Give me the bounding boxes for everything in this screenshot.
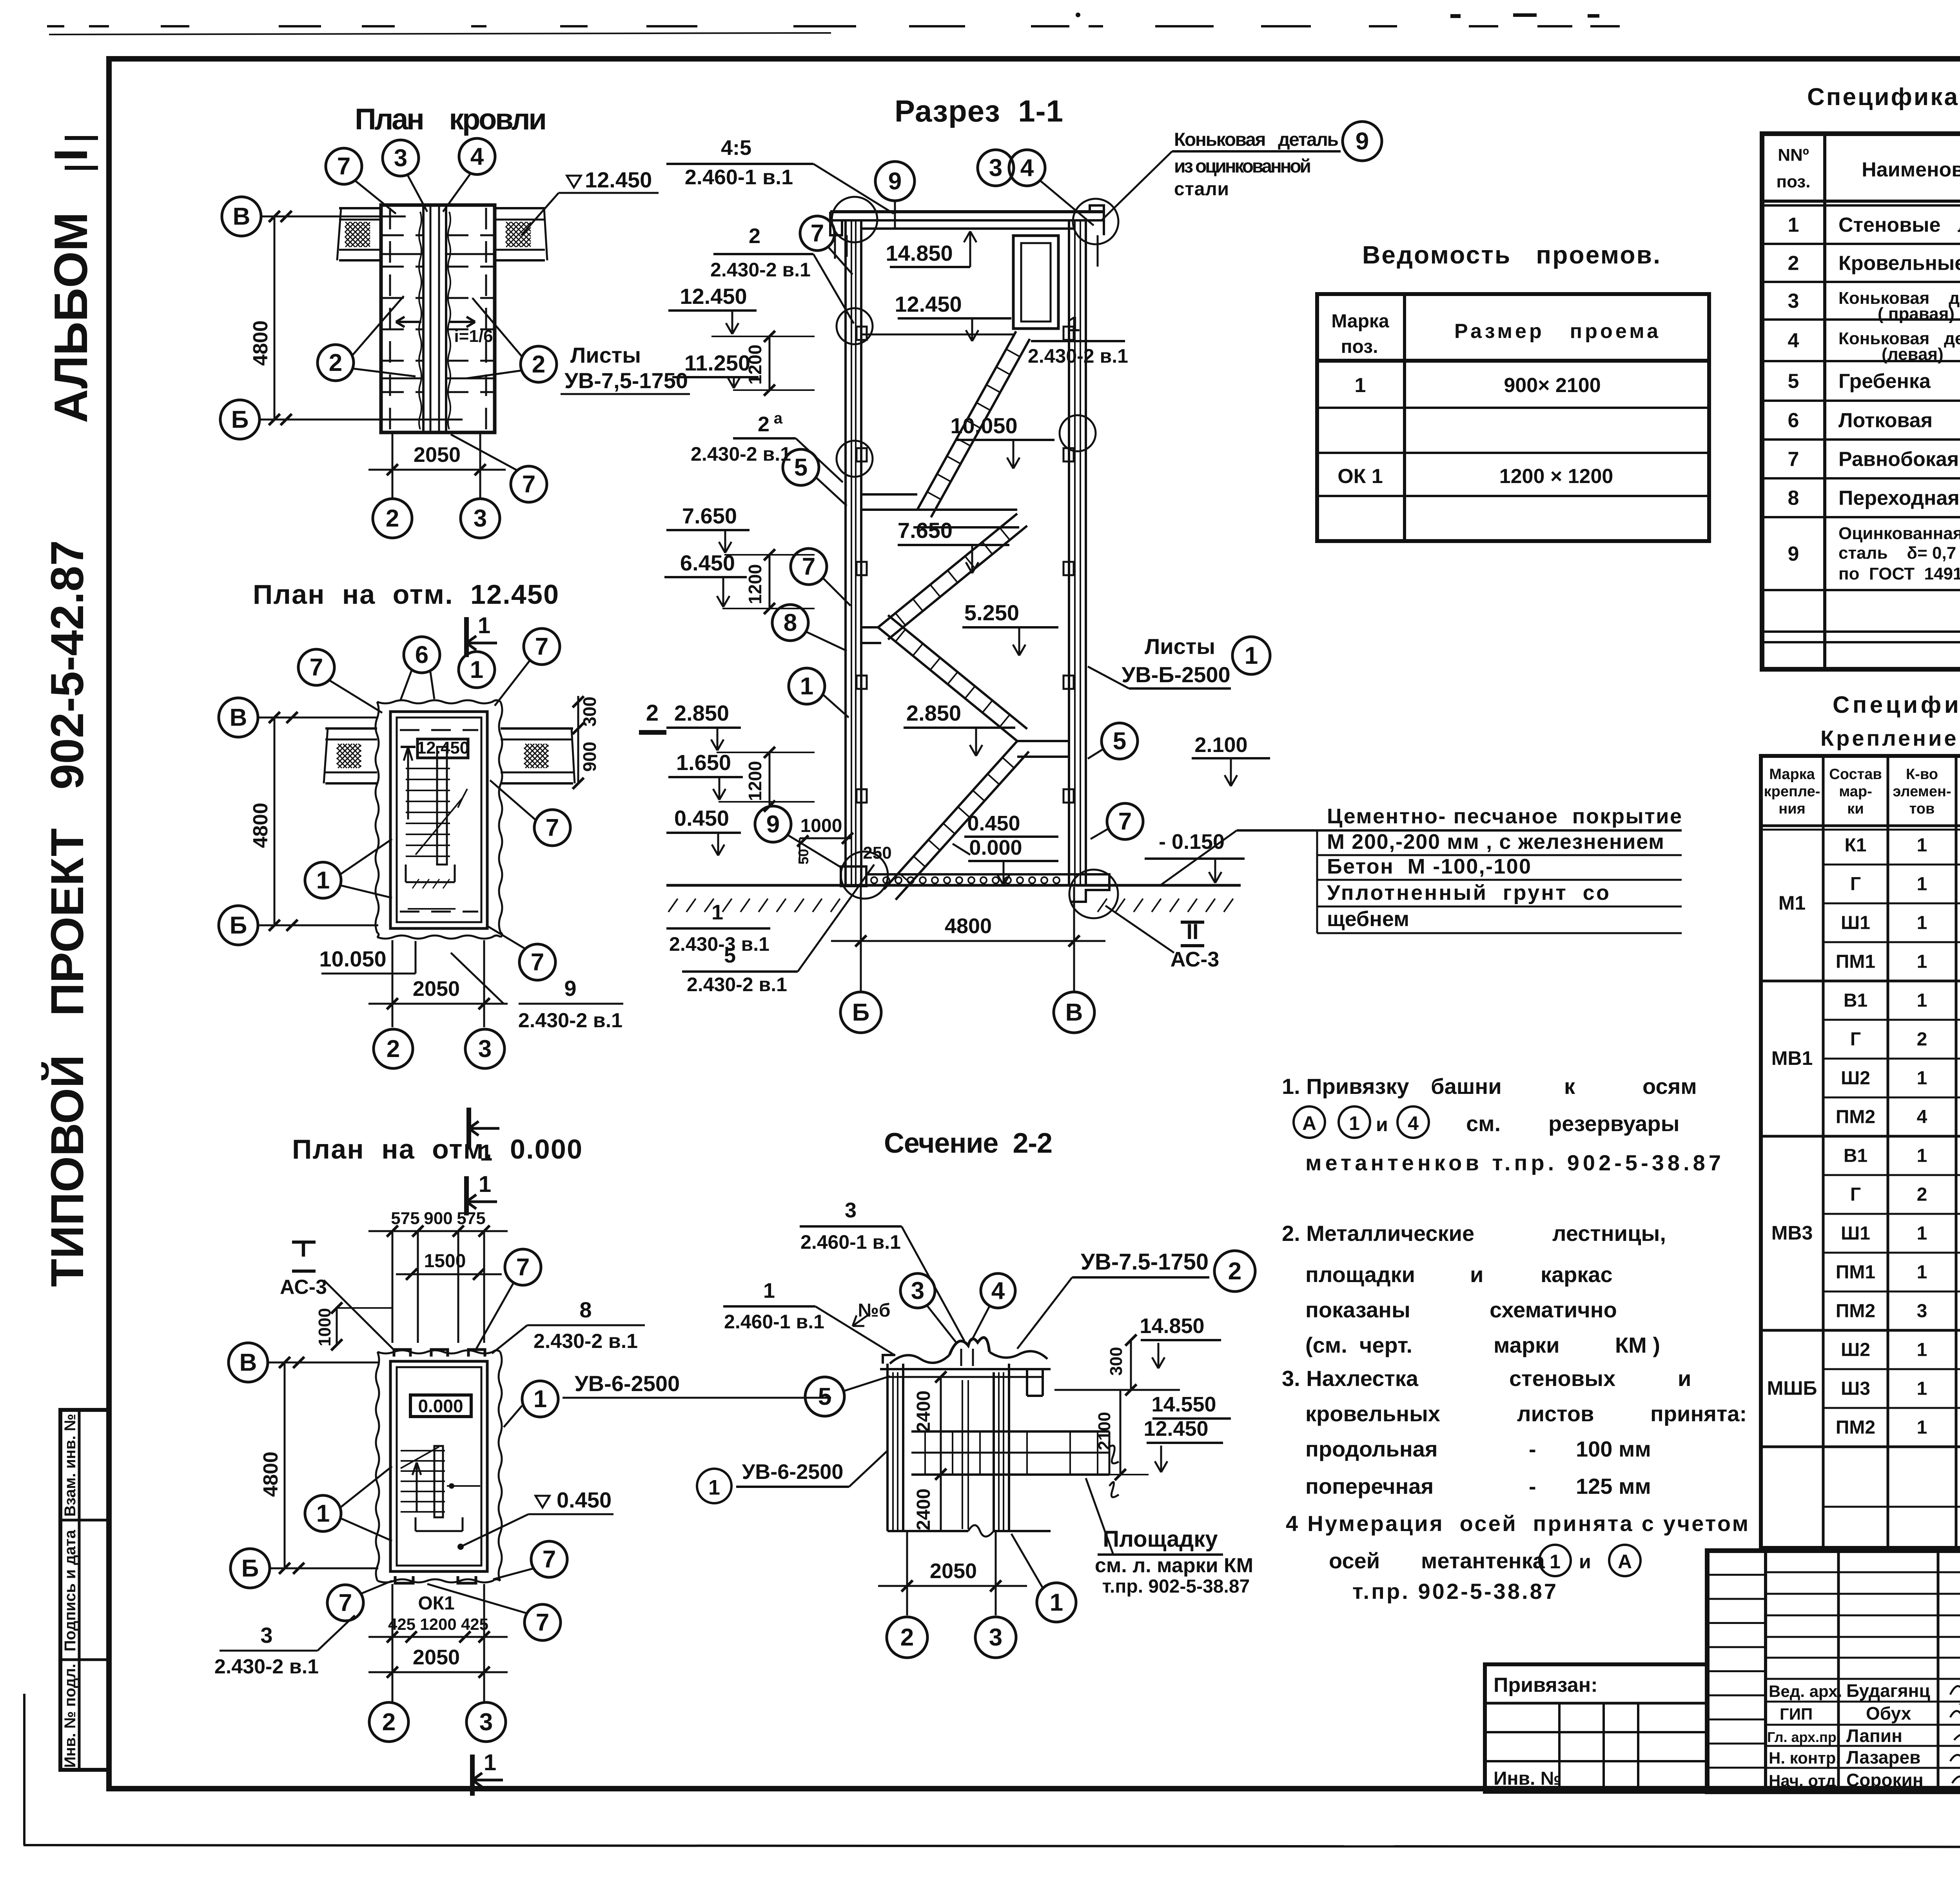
sidebar table (Инв.№ подл / Подпись и дата / Взам. инв.№) [60, 1410, 109, 1770]
section 2-2 dim 300 [1130, 1340, 1132, 1390]
svg-text:1: 1 [763, 1279, 775, 1302]
svg-text:3: 3 [989, 1624, 1002, 1651]
svg-text:2.430-2 в.1: 2.430-2 в.1 [691, 443, 791, 465]
svg-text:см. л. марки КМ: см. л. марки КМ [1095, 1554, 1253, 1577]
section 2-2 right wall [993, 1372, 995, 1531]
svg-text:2050: 2050 [413, 1646, 460, 1669]
svg-text:7: 7 [339, 1589, 352, 1617]
svg-text:2.430-2 в.1: 2.430-2 в.1 [687, 974, 787, 995]
plan 0.000 top clips [394, 1350, 410, 1357]
section 2-2 dim 2400 lower [940, 1474, 942, 1531]
dimension 2050 plan 12.450 [368, 1003, 508, 1005]
svg-text:Бетон М -100,-100: Бетон М -100,-100 [1327, 855, 1531, 878]
svg-text:900: 900 [579, 742, 600, 772]
wall detail circle right top [1073, 199, 1118, 244]
section mark 1 top of plan 12.450 [464, 617, 469, 657]
svg-text:щебнем: щебнем [1327, 907, 1409, 931]
svg-text:0.000: 0.000 [969, 836, 1022, 859]
section 2-2 bottom break line [887, 1530, 968, 1532]
svg-text:1: 1 [478, 613, 490, 638]
svg-text:Листы: Листы [570, 343, 641, 367]
svg-text:Состав: Состав [1829, 766, 1882, 783]
svg-text:В: В [233, 203, 250, 230]
svg-text:4800: 4800 [249, 803, 272, 848]
svg-text:7: 7 [546, 814, 559, 841]
svg-text:Спецификация строительных: Спецификация строительных изделий [1807, 84, 1960, 111]
svg-text:-: - [1529, 1437, 1536, 1461]
svg-text:7: 7 [536, 1609, 549, 1636]
scan noise marks [1076, 13, 1599, 18]
svg-text:7: 7 [1788, 448, 1799, 471]
svg-text:поперечная: поперечная [1305, 1474, 1434, 1499]
svg-text:I: I [45, 148, 97, 161]
callout bubble 7 plan12 top-left [298, 649, 334, 685]
svg-text:4800: 4800 [249, 320, 272, 366]
svg-text:по ГОСТ 14918 - 80: по ГОСТ 14918 - 80 [1838, 564, 1960, 583]
dimension 2050 roof plan [368, 469, 506, 471]
callout bubble 5 razrez right [1102, 723, 1138, 759]
title block signature thin rows [1766, 1571, 1960, 1573]
svg-text:К1: К1 [1845, 835, 1867, 856]
svg-text:К-во: К-во [1906, 766, 1938, 783]
svg-text:7: 7 [337, 153, 350, 180]
svg-text:1000: 1000 [315, 1308, 334, 1346]
svg-text:2.430-2 в.1: 2.430-2 в.1 [1028, 345, 1128, 367]
svg-text:2.100: 2.100 [1194, 733, 1247, 757]
svg-text:1: 1 [1050, 1589, 1063, 1616]
svg-text:1: 1 [316, 867, 330, 894]
svg-text:2100: 2100 [1095, 1412, 1114, 1450]
plan 0.000 inner wall rectangle [390, 1361, 487, 1571]
svg-text:а: а [774, 410, 783, 427]
axis line Б [260, 419, 463, 421]
plan 12.450 stair break line [416, 798, 463, 855]
axis bubble 3 sech [975, 1617, 1016, 1658]
section 1-1 left footing [841, 866, 866, 886]
svg-text:1: 1 [534, 1386, 547, 1413]
svg-text:Переходная: Переходная [1838, 487, 1960, 510]
svg-text:ПМ1: ПМ1 [1836, 1262, 1875, 1283]
svg-text:1: 1 [1917, 1417, 1927, 1438]
title block signature columns [1837, 1551, 1840, 1792]
svg-text:(см. черт.: (см. черт. [1305, 1333, 1412, 1357]
svg-text:5.250: 5.250 [964, 600, 1019, 625]
svg-text:4800: 4800 [260, 1451, 282, 1497]
svg-text:2.460-1 в.1: 2.460-1 в.1 [724, 1311, 824, 1333]
circle detail right footing [1069, 870, 1118, 918]
svg-text:Г: Г [1850, 1029, 1861, 1050]
axis bubble Б plan 0.000 [230, 1549, 270, 1588]
svg-text:1: 1 [1917, 1340, 1927, 1361]
axis bubble В [222, 197, 261, 236]
svg-text:и: и [1376, 1113, 1388, 1135]
title block signatures (handwritten) [1950, 1686, 1960, 1785]
callout bubble 9 razrez top [875, 162, 915, 201]
plan 0.000 top dimensions 575 900 575 [368, 1230, 508, 1232]
svg-text:7: 7 [535, 633, 548, 660]
svg-text:Равнобокая угловая: Равнобокая угловая [1838, 448, 1960, 471]
section 1-1 stair platforms [1017, 740, 1069, 742]
svg-text:1200: 1200 [420, 1615, 456, 1633]
callout bubble 7 plan0 right-bottom [531, 1541, 567, 1577]
svg-text:Разрез 1-1: Разрез 1-1 [895, 94, 1063, 128]
axis bubble 2 plan 12.450 [374, 1029, 413, 1068]
svg-text:12.450: 12.450 [680, 284, 747, 309]
svg-text:I: I [300, 1236, 307, 1262]
spec table row lines [1762, 243, 1960, 245]
svg-text:Н. контр.: Н. контр. [1769, 1749, 1840, 1767]
svg-text:Марка: Марка [1769, 766, 1815, 783]
svg-text:Крепление стен.: Крепление стен. [1820, 726, 1960, 750]
svg-text:7: 7 [522, 471, 535, 498]
title block change-log narrow column [1764, 1551, 1767, 1792]
axis bubble В plan 0.000 [229, 1343, 268, 1382]
svg-text:МВ3: МВ3 [1771, 1222, 1813, 1244]
svg-text:каркас: каркас [1541, 1262, 1613, 1287]
svg-text:ТИПОВОЙ ПРОЕКТ 902-5-42.87: ТИПОВОЙ ПРОЕКТ 902-5-42.87 [41, 540, 93, 1287]
svg-text:1200: 1200 [745, 564, 765, 604]
svg-text:2: 2 [386, 505, 399, 532]
svg-text:6: 6 [415, 641, 428, 668]
svg-text:ки: ки [1847, 801, 1864, 817]
svg-text:ОК 1: ОК 1 [1338, 465, 1383, 488]
svg-text:План на отм. 12.450: План на отм. 12.450 [253, 579, 559, 610]
svg-text:МШБ: МШБ [1767, 1377, 1817, 1399]
section 2-2 level line 14.550 [1054, 1389, 1180, 1391]
svg-text:14.850: 14.850 [886, 241, 953, 265]
svg-text:1200: 1200 [745, 345, 765, 385]
svg-text:5: 5 [724, 944, 736, 967]
svg-text:2400: 2400 [913, 1391, 934, 1433]
svg-text:7.650: 7.650 [898, 518, 953, 543]
svg-text:Ш3: Ш3 [1841, 1379, 1870, 1399]
section mark 1 bottom of plan 0.000 [470, 1755, 475, 1796]
svg-text:1: 1 [1788, 214, 1799, 236]
svg-text:ОК1: ОК1 [418, 1593, 454, 1614]
plan 12.450 outer corrugated wall [376, 702, 379, 937]
svg-text:УВ-6-2500: УВ-6-2500 [742, 1460, 844, 1484]
svg-text:лестницы,: лестницы, [1552, 1221, 1666, 1246]
svg-text:2: 2 [758, 412, 769, 436]
callout bubble 3 razrez top [978, 150, 1014, 186]
svg-text:осям: осям [1642, 1074, 1697, 1099]
svg-text:осей: осей [1329, 1548, 1380, 1573]
svg-text:Б: Б [852, 999, 870, 1026]
callout bubble 9 razrez right [1343, 122, 1382, 161]
svg-text:В: В [240, 1349, 257, 1376]
svg-text:1: 1 [711, 901, 723, 924]
svg-text:50: 50 [795, 849, 811, 865]
svg-text:КМ ): КМ ) [1615, 1333, 1660, 1357]
svg-text:Подпись и дата: Подпись и дата [62, 1529, 79, 1651]
svg-text:3: 3 [474, 505, 487, 532]
callout bubble 1 plan12 top [459, 652, 495, 688]
section 2-2 left wall [886, 1364, 889, 1531]
svg-text:2: 2 [749, 224, 760, 248]
axis line В [261, 216, 406, 218]
axis bubble Б razrez [840, 992, 881, 1033]
axis bubble 2 sech [887, 1617, 927, 1658]
svg-text:ПМ2: ПМ2 [1836, 1301, 1875, 1322]
wall detail circle left mid [837, 441, 873, 477]
svg-text:В: В [1065, 999, 1083, 1026]
svg-text:2: 2 [382, 1709, 396, 1736]
section 1-1 left wall [844, 222, 847, 885]
svg-text:2: 2 [1917, 1029, 1927, 1050]
svg-text:3: 3 [845, 1199, 857, 1222]
plan 0.000 landing [415, 1517, 417, 1531]
svg-text:1: 1 [1550, 1551, 1561, 1573]
section mark 1 bottom of plan 12.450 [466, 1108, 471, 1150]
svg-text:Б: Б [230, 912, 247, 939]
dimension 4800 plan 12.450 [274, 717, 276, 925]
plan 0.000 axis leaders bottom [392, 1584, 394, 1702]
svg-text:1.650: 1.650 [676, 750, 731, 775]
svg-text:( правая): ( правая) [1878, 304, 1955, 323]
svg-text:3: 3 [479, 1709, 493, 1736]
svg-text:мар-: мар- [1839, 783, 1872, 800]
section 2-2 dim 2400 upper [940, 1377, 942, 1474]
plan 12.450 hatch mark inside [412, 879, 450, 888]
svg-text:8: 8 [579, 1297, 592, 1322]
callout bubble 5 razrez left [783, 449, 819, 485]
callout bubble 4 sech roof [981, 1273, 1015, 1308]
svg-text:6: 6 [1788, 409, 1799, 432]
svg-text:1: 1 [800, 673, 813, 700]
svg-text:10.050: 10.050 [950, 413, 1017, 438]
svg-text:1: 1 [1245, 642, 1258, 669]
svg-text:ГИП: ГИП [1780, 1705, 1813, 1723]
plan 12.450 left wing [325, 727, 377, 730]
svg-text:4: 4 [1020, 154, 1034, 182]
section 1-1 roof right ridge cap [1090, 205, 1104, 235]
title block outer frame [1707, 1551, 1960, 1792]
section 1-1 door opening at 12.450 [1013, 236, 1058, 329]
svg-text:Ш1: Ш1 [1841, 913, 1870, 934]
svg-text:1: 1 [1917, 1146, 1927, 1166]
svg-text:Б: Б [241, 1555, 259, 1582]
axis bubble 3 plan 0.000 [466, 1702, 506, 1742]
svg-text:2.460-1 в.1: 2.460-1 в.1 [800, 1231, 901, 1253]
svg-text:3: 3 [1917, 1301, 1927, 1322]
svg-text:300: 300 [579, 697, 600, 727]
svg-text:4: 4 [470, 143, 484, 170]
svg-text:6.450: 6.450 [680, 550, 735, 575]
roof plan ridge strip [422, 205, 425, 432]
svg-text:2.430-2 в.1: 2.430-2 в.1 [518, 1009, 622, 1032]
svg-text:тов: тов [1909, 801, 1935, 817]
svg-text:Лазарев: Лазарев [1846, 1747, 1920, 1767]
section 1-1 foundation slab [866, 873, 1070, 876]
svg-text:стали: стали [1174, 179, 1229, 200]
svg-text:900: 900 [424, 1209, 452, 1228]
svg-text:метантенка: метантенка [1421, 1548, 1545, 1573]
svg-text:продольная: продольная [1305, 1437, 1438, 1461]
svg-text:Гл. арх.пр.: Гл. арх.пр. [1767, 1729, 1840, 1745]
plan 12.450 inner dashed lines [400, 729, 478, 731]
svg-text:575: 575 [457, 1209, 485, 1228]
svg-text:поз.: поз. [1777, 172, 1811, 191]
axis bubble Б plan 12.450 [219, 906, 258, 945]
dimension 4800 plan 0.000 [284, 1362, 286, 1568]
svg-text:1: 1 [1917, 952, 1927, 972]
svg-text:1: 1 [316, 1500, 330, 1527]
svg-text:0.000: 0.000 [418, 1396, 463, 1416]
svg-text:элемен-: элемен- [1893, 783, 1951, 800]
svg-text:Г: Г [1850, 1184, 1861, 1205]
callout bubble 1 plan12 left [305, 862, 341, 898]
plan 12.450 right wing [501, 727, 573, 730]
svg-text:Кровельные листы: Кровельные листы [1838, 252, 1960, 275]
section mark 1 top of plan 0.000 [464, 1176, 469, 1215]
wall detail circle left 12450 [837, 308, 873, 344]
section 1-1 ground line [666, 884, 1241, 887]
svg-text:2: 2 [900, 1624, 914, 1651]
callout bubble 7 roof top-left [326, 148, 362, 184]
plan 0.000 bottom window ОК1 openings [395, 1576, 413, 1583]
svg-text:900× 2100: 900× 2100 [1504, 374, 1601, 397]
section 2-2 inner posts [962, 1380, 963, 1529]
svg-text:Сечение 2-2: Сечение 2-2 [884, 1128, 1053, 1159]
svg-text:к: к [1564, 1074, 1575, 1099]
svg-text:Наименование: Наименование [1862, 158, 1960, 181]
svg-text:575: 575 [391, 1209, 419, 1228]
callout bubble 7 plan0 bottom-right [524, 1604, 561, 1640]
svg-text:Гребенка: Гребенка [1838, 370, 1931, 393]
plan 0.000 dimension 1000 [336, 1308, 338, 1345]
svg-text:3: 3 [1788, 290, 1799, 312]
svg-text:7.650: 7.650 [682, 503, 737, 528]
svg-text:3: 3 [478, 1035, 492, 1063]
svg-text:2: 2 [1228, 1258, 1241, 1285]
svg-text:2050: 2050 [930, 1559, 977, 1583]
svg-text:9: 9 [564, 976, 576, 1001]
svg-text:1: 1 [479, 1172, 491, 1197]
callout bubble 1 right listy [1232, 637, 1270, 674]
section 1-1 roof left end cap [830, 212, 842, 235]
svg-text:1000: 1000 [800, 816, 842, 836]
section 2-2 left parapet hook [883, 1355, 895, 1364]
callout bubble 2 sech [1214, 1251, 1255, 1291]
svg-text:2.430-3 в.1: 2.430-3 в.1 [669, 933, 769, 955]
wall detail circle left top [832, 197, 877, 242]
svg-text:7: 7 [310, 654, 323, 681]
svg-text:7: 7 [531, 949, 544, 976]
svg-text:9: 9 [1356, 128, 1369, 155]
svg-text:АЛЬБОМ: АЛЬБОМ [45, 212, 97, 423]
svg-text:1: 1 [1917, 874, 1927, 895]
roof plan axis 3 leader [479, 432, 481, 499]
axis bubble Б [220, 400, 260, 439]
svg-text:Листы: Листы [1145, 634, 1215, 659]
svg-text:Обух: Обух [1866, 1703, 1911, 1724]
svg-text:1: 1 [470, 656, 483, 683]
svg-text:1: 1 [484, 1750, 496, 1775]
plan 0.000 stair treads [401, 1450, 445, 1451]
svg-text:принята:: принята: [1650, 1401, 1747, 1426]
svg-text:5: 5 [1788, 370, 1799, 393]
svg-text:10.050: 10.050 [319, 946, 386, 971]
plan 12.450 stair stringer [437, 747, 447, 865]
svg-text:1: 1 [1917, 990, 1927, 1011]
section 2-2 roof wavy top with ridge cap [890, 1355, 949, 1364]
left margin dim 1200 lower [769, 555, 771, 609]
svg-text:1: 1 [1917, 1379, 1927, 1399]
svg-text:и: и [1579, 1551, 1591, 1573]
svg-text:крепле-: крепле- [1764, 783, 1820, 800]
title block signature name rows [1766, 1678, 1960, 1680]
svg-text:9: 9 [888, 168, 902, 195]
openings table frame [1317, 294, 1709, 541]
privyazan table [1485, 1664, 1707, 1792]
svg-text:Привязан:: Привязан: [1494, 1674, 1598, 1697]
svg-text:2050: 2050 [413, 977, 460, 1001]
section 1-1 right footing [1070, 874, 1109, 902]
roof plan left wing wall [339, 207, 381, 209]
svg-text:125 мм: 125 мм [1576, 1474, 1651, 1499]
plan 0.000 stair arrow [416, 1462, 418, 1511]
svg-text:2: 2 [532, 351, 545, 378]
fastening table frame [1761, 756, 1960, 1548]
axis bubble В plan 12.450 [219, 698, 258, 737]
svg-text:В1: В1 [1844, 1146, 1867, 1166]
wall detail circle right mid [1060, 415, 1096, 451]
section 2-2 dim 2050 [878, 1585, 1027, 1587]
svg-text:7: 7 [516, 1254, 530, 1281]
svg-text:4: 4 [991, 1277, 1005, 1304]
svg-text:АС-3: АС-3 [280, 1276, 327, 1299]
fastening table group rows [1823, 864, 1960, 866]
svg-text:300: 300 [1107, 1347, 1126, 1375]
svg-text:5: 5 [818, 1383, 831, 1410]
callout bubble 7 plan12 bottom [519, 944, 555, 980]
dimension 2050 plan 0.000 [368, 1671, 508, 1673]
svg-text:2. Металлические: 2. Металлические [1282, 1221, 1474, 1246]
svg-text:Г: Г [1850, 874, 1861, 895]
svg-text:12.450: 12.450 [1143, 1417, 1208, 1440]
svg-text:сталь δ= 0,7: сталь δ= 0,7 [1838, 543, 1956, 563]
svg-text:схематично: схематично [1490, 1297, 1617, 1322]
svg-text:8: 8 [1788, 487, 1799, 510]
svg-text:-: - [1529, 1474, 1536, 1499]
callout bubble 7 razrez right lower [1107, 803, 1143, 839]
svg-text:12.450: 12.450 [585, 167, 652, 192]
plan 12.450 inner wall rectangle [390, 712, 487, 928]
elevation mark 12.450 roof [567, 176, 581, 187]
svg-text:NNº: NNº [1778, 145, 1809, 165]
svg-text:Стеновые листы: Стеновые листы [1838, 214, 1960, 236]
roof plan right wing wall [495, 207, 545, 209]
svg-text:т.пр. 902-5-38.87: т.пр. 902-5-38.87 [1102, 1576, 1250, 1597]
svg-text:ПМ2: ПМ2 [1836, 1107, 1875, 1128]
axis bubble 2 plan 0.000 [369, 1702, 408, 1742]
roof plan axis 2 leader [392, 432, 394, 499]
svg-text:4: 4 [1408, 1112, 1419, 1134]
svg-text:А: А [1302, 1112, 1316, 1134]
svg-text:1: 1 [1355, 374, 1366, 397]
spec table frame [1762, 134, 1960, 669]
svg-text:Площадку: Площадку [1103, 1526, 1218, 1552]
callout bubble 8 razrez left [772, 605, 808, 641]
dimension 4800 roof plan [274, 216, 276, 420]
svg-text:4: 4 [1788, 329, 1799, 352]
svg-text:2050: 2050 [414, 443, 461, 467]
svg-text:1: 1 [1917, 1223, 1927, 1244]
svg-text:5: 5 [1113, 728, 1126, 755]
svg-text:УВ-6-2500: УВ-6-2500 [575, 1371, 680, 1396]
svg-text:Нач. отд.: Нач. отд. [1769, 1771, 1840, 1790]
svg-text:1: 1 [1068, 312, 1080, 336]
